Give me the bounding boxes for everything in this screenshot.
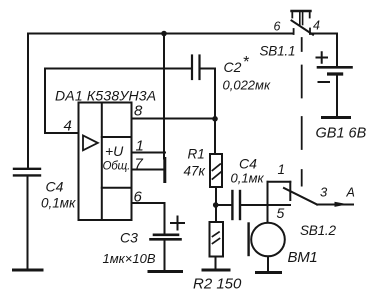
- svg-text:1: 1: [278, 162, 286, 177]
- capacitor C4 (left) plates: [14, 169, 40, 176]
- wire vertical C2 to R1: [214, 69, 216, 154]
- R1 power slashes: [212, 164, 221, 179]
- label pin 8: [134, 103, 143, 120]
- wire SB1.2 to BM1: [267, 182, 269, 223]
- label SB1.2: [300, 223, 336, 238]
- svg-text:1: 1: [136, 138, 144, 155]
- SB1.1 lever: [292, 21, 314, 35]
- SB1.1 left contact tick: [293, 29, 295, 34]
- svg-text:6: 6: [134, 189, 143, 206]
- svg-text:R2 150: R2 150: [193, 276, 242, 293]
- wire pin 6 lead: [132, 203, 165, 234]
- svg-text:7: 7: [135, 156, 144, 173]
- op-amp U1 DA1 box: [79, 103, 132, 221]
- svg-text:C4: C4: [239, 156, 257, 172]
- svg-text:R1: R1: [188, 147, 205, 162]
- label pin 1: [136, 138, 144, 155]
- svg-text:5: 5: [277, 205, 285, 221]
- svg-text:4: 4: [313, 19, 320, 33]
- wire pin 1 lead: [132, 152, 166, 154]
- label terminal 3: [320, 185, 328, 200]
- wire junction to C4 right: [216, 204, 232, 206]
- label BM1: [288, 249, 318, 266]
- SB1.1 cap end ticks: [292, 11, 309, 18]
- svg-text:4: 4: [64, 118, 72, 135]
- wire battery feed: [336, 34, 338, 67]
- label Общ: [103, 161, 131, 173]
- ground bar under GB1: [323, 116, 350, 119]
- svg-text:C4: C4: [46, 179, 64, 195]
- svg-text:0,1мк: 0,1мк: [41, 196, 76, 211]
- wire output A: [317, 204, 353, 206]
- BM1 side bar: [247, 224, 249, 256]
- switch SB1.2 top link: [268, 181, 291, 183]
- wire inner rail to C2: [45, 68, 191, 70]
- svg-text:+U: +U: [105, 143, 124, 159]
- wire pin 8 lead: [132, 118, 216, 120]
- svg-text:3: 3: [320, 185, 328, 200]
- resistor R2: [210, 222, 224, 257]
- label R2: [193, 276, 242, 293]
- label pin 7: [135, 156, 144, 173]
- svg-text:6: 6: [274, 20, 281, 34]
- label R1: [184, 147, 206, 179]
- label C3: [103, 230, 156, 267]
- label node A: [346, 186, 355, 200]
- wire battery negative lead: [336, 76, 338, 117]
- wire R2 bottom lead: [215, 257, 217, 270]
- svg-text:C3: C3: [120, 230, 138, 246]
- svg-text:1мк×10В: 1мк×10В: [103, 251, 156, 266]
- wire pin 7 lead: [132, 169, 165, 171]
- svg-text:DA1 К538УН3А: DA1 К538УН3А: [55, 88, 156, 104]
- svg-text:SB1.2: SB1.2: [300, 223, 336, 238]
- arrow head output A: [335, 202, 349, 207]
- label C2 with asterisk: [223, 54, 271, 93]
- wire top rail left segment: [28, 33, 294, 35]
- C3 plus sign: [171, 217, 184, 230]
- resistor R1: [210, 154, 222, 187]
- wire R1 to junction: [215, 187, 217, 222]
- DA1 amplifier triangle: [83, 136, 98, 151]
- SB1.2 lever: [284, 188, 317, 205]
- pin 7 terminal bar: [163, 159, 166, 182]
- ground bar under BM1: [257, 271, 281, 274]
- label SB1.1: [260, 44, 296, 59]
- battery GB1 short plate: [329, 72, 342, 75]
- wire inner rail down: [44, 69, 46, 134]
- microphone BM1 circle: [251, 223, 285, 257]
- R2 power slashes: [213, 232, 220, 244]
- battery plus sign: [317, 52, 328, 63]
- label SB1.2 terminal 1: [278, 162, 286, 177]
- svg-text:8: 8: [134, 103, 143, 120]
- node junction pin8 wire: [212, 116, 218, 122]
- capacitor C3 plates: [151, 235, 181, 240]
- wire C4 right lead to switch: [240, 204, 290, 206]
- ground bar under C3: [149, 270, 182, 273]
- svg-text:BM1: BM1: [288, 249, 318, 266]
- DA1 right column divider lower: [102, 187, 132, 189]
- svg-text:*: *: [243, 54, 250, 71]
- label terminal 6: [274, 20, 281, 34]
- wire C3 bottom lead: [164, 241, 166, 271]
- wire C4 left bottom lead: [27, 177, 29, 270]
- DA1 right column divider upper: [102, 136, 132, 138]
- wire C2 right lead: [200, 68, 216, 70]
- svg-text:GB1 6В: GB1 6В: [316, 126, 367, 142]
- battery GB1 long plate: [318, 66, 352, 69]
- label GB1: [316, 126, 367, 142]
- SB1.2 fixed contact post: [289, 182, 291, 200]
- label terminal 4: [313, 19, 320, 33]
- svg-text:A: A: [346, 186, 355, 200]
- label +U: [105, 143, 124, 159]
- wire pin 4 lead: [45, 132, 79, 134]
- label C4 left: [41, 179, 76, 211]
- SB1.1 stem: [300, 11, 303, 25]
- label DA1: [55, 88, 156, 104]
- switch SB1.1 button cap: [292, 10, 311, 12]
- svg-text:47к: 47к: [184, 164, 206, 179]
- ground bar under C4 left: [14, 269, 43, 272]
- label SB1.2 terminal 5: [277, 205, 285, 221]
- svg-text:Общ.: Общ.: [103, 161, 131, 173]
- ground bar under R2: [203, 269, 229, 272]
- capacitor C2 plates: [192, 56, 200, 80]
- DA1 internal divider: [101, 103, 103, 221]
- switch link dashed line: [301, 38, 303, 186]
- node junction top rail: [161, 31, 167, 37]
- wire BM1 bottom lead: [267, 257, 269, 272]
- SB1.1 right contact tick: [309, 29, 311, 35]
- label C4 right: [231, 156, 265, 186]
- wire +U vertical from top rail to pin 1: [163, 34, 165, 159]
- svg-text:0,1мк: 0,1мк: [231, 171, 265, 186]
- capacitor C4 (right) plates: [232, 191, 240, 219]
- wire top rail right segment: [310, 33, 337, 35]
- battery minus sign: [319, 81, 330, 83]
- svg-text:0,022мк: 0,022мк: [223, 78, 271, 93]
- svg-text:SB1.1: SB1.1: [260, 44, 296, 59]
- svg-text:C2: C2: [224, 59, 242, 75]
- wire left rail down to C4: [27, 34, 29, 169]
- label pin 4: [64, 118, 72, 135]
- label pin 6: [134, 189, 143, 206]
- node junction R1 R2 C4: [213, 202, 219, 208]
